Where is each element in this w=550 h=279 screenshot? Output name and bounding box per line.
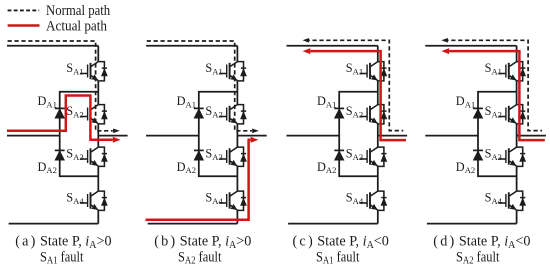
wire: neutral input (b) (146, 135, 199, 137)
normal path (dashed) (d) (444, 40, 542, 130)
wire: top rail (d) (425, 45, 516, 47)
wire: phase output (a) (98, 135, 127, 137)
wire: main vertical (a) (97, 46, 99, 224)
actual path arrow (d) (441, 48, 449, 54)
wire: neutral input (c) (287, 135, 340, 137)
transistor S_A4 ((a)) (80, 191, 107, 210)
diode D_A2 ((c)) (334, 150, 344, 160)
svg-text:Actual path: Actual path (46, 18, 108, 34)
svg-text:SA1 fault: SA1 fault (40, 249, 83, 266)
diode D_A1 ((b)) (194, 108, 204, 118)
transistor S_A4 ((d)) (498, 191, 525, 210)
wire: neutral input (a) (7, 135, 60, 137)
wire: main vertical (d) (516, 46, 518, 224)
normal path (dashed) (b) (147, 41, 252, 131)
svg-text:(a)State P, iA>0: (a)State P, iA>0 (15, 233, 111, 250)
wire: top rail (b) (146, 45, 237, 47)
wire: clamp branch (a) (60, 92, 99, 177)
svg-text:SA2 fault: SA2 fault (178, 249, 221, 266)
wire: neutral input (d) (425, 135, 478, 137)
transistor S_A1 ((c)) (360, 62, 387, 81)
transistor S_A2 ((c)) (360, 105, 387, 124)
transistor S_A1 ((d)) (498, 62, 525, 81)
normal path arrow (c) (303, 38, 310, 43)
wire: main vertical (c) (377, 46, 379, 224)
actual path (red) (c) (310, 51, 406, 140)
transistor S_A1 ((b)) (219, 62, 246, 81)
normal path (dashed) (a) (8, 41, 113, 131)
wire: bottom rail (c) (288, 223, 378, 225)
diode D_A1 ((a)) (55, 108, 65, 118)
transistor S_A4 ((c)) (360, 191, 387, 210)
transistor S_A2 ((d)) (498, 105, 525, 124)
diode D_A1 ((d)) (473, 108, 483, 118)
normal path arrow (a) (113, 129, 120, 134)
transistor S_A3 ((d)) (498, 147, 525, 166)
wire: clamp branch (b) (199, 92, 238, 177)
actual path arrow (c) (303, 48, 311, 54)
wire: phase output (b) (237, 135, 266, 137)
actual path (red) (b) (146, 140, 251, 220)
legend: normal path dashed sample (8, 9, 40, 11)
normal path arrow (d) (441, 38, 448, 43)
wire: phase output (c) (378, 135, 407, 137)
wire: clamp branch (d) (478, 92, 517, 177)
svg-text:SA1 fault: SA1 fault (316, 249, 359, 266)
wire: phase output (d) (517, 135, 546, 137)
actual path arrow (b) (251, 137, 259, 143)
wire: top rail (a) (7, 45, 98, 47)
actual path (red) (d) (449, 51, 545, 140)
wire: bottom rail (a) (9, 223, 99, 225)
legend: actual path red sample (8, 24, 40, 27)
normal path (dashed) (c) (306, 40, 404, 130)
svg-text:(c)State P, iA<0: (c)State P, iA<0 (293, 233, 389, 250)
diode D_A2 ((a)) (55, 150, 65, 160)
diode D_A2 ((b)) (194, 150, 204, 160)
svg-text:SA2 fault: SA2 fault (456, 249, 499, 266)
wire: bottom rail (b) (148, 223, 238, 225)
wire: top rail (c) (287, 45, 378, 47)
diode D_A2 ((d)) (473, 150, 483, 160)
svg-text:Normal path: Normal path (46, 3, 111, 19)
wire: clamp branch (c) (339, 92, 378, 177)
actual path (red) (a) (7, 96, 113, 140)
wire: bottom rail (d) (427, 223, 517, 225)
normal path arrow (b) (252, 129, 259, 134)
diode D_A1 ((c)) (334, 108, 344, 118)
transistor S_A3 ((b)) (219, 147, 246, 166)
transistor S_A2 ((a)) (80, 105, 107, 124)
transistor S_A3 ((a)) (80, 147, 107, 166)
transistor S_A3 ((c)) (360, 147, 387, 166)
actual path arrow (a) (113, 137, 121, 143)
transistor S_A1 ((a)) (80, 62, 107, 81)
transistor S_A2 ((b)) (219, 105, 246, 124)
transistor S_A4 ((b)) (219, 191, 246, 210)
wire: main vertical (b) (236, 46, 238, 224)
